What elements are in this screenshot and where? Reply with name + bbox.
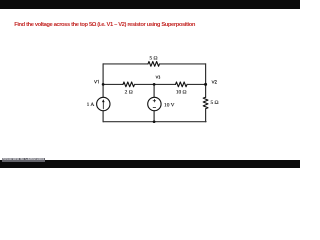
watermark strip	[2, 158, 45, 162]
voltage source V1 10V circle	[148, 97, 161, 110]
wire left column lower	[102, 111, 104, 122]
current source arrow	[102, 101, 104, 109]
svg-text:1 A: 1 A	[87, 102, 95, 108]
wire middle column upper	[153, 84, 155, 97]
wire top rail right segment	[160, 63, 206, 65]
current source I1 1A circle	[97, 97, 110, 110]
node v2 dot	[204, 83, 207, 86]
wire middle rail v1-2ohm	[103, 83, 123, 85]
wire middle rail 10ohm-v2	[187, 83, 206, 85]
svg-text:10 Ω: 10 Ω	[176, 89, 187, 95]
svg-text:10 V: 10 V	[164, 103, 175, 109]
bottom black letterbox bar	[0, 160, 300, 168]
wire middle rail 2ohm-v3	[135, 83, 155, 85]
wire left column upper	[102, 64, 104, 97]
wire right column lower	[205, 109, 207, 122]
svg-text:2 Ω: 2 Ω	[125, 89, 133, 95]
node v1 dot	[102, 83, 105, 86]
resistor R1 2ohm zigzag	[123, 82, 135, 87]
node v3 label	[156, 76, 158, 79]
wire right column upper	[205, 64, 207, 97]
svg-text:5 Ω: 5 Ω	[149, 55, 157, 61]
node v1 label	[94, 80, 96, 83]
resistor R2 10ohm zigzag	[176, 82, 188, 87]
resistor R-top 5ohm zigzag	[148, 62, 160, 67]
voltage source minus sign	[153, 107, 156, 109]
wire middle rail v3-10ohm	[154, 83, 175, 85]
wire bottom rail	[103, 121, 206, 123]
wire middle column lower	[153, 111, 155, 122]
bottom junction dot	[153, 120, 156, 123]
title text	[14, 22, 195, 28]
node v3 dot	[153, 83, 156, 86]
svg-text:5 Ω: 5 Ω	[211, 100, 219, 106]
top black letterbox bar	[0, 0, 300, 9]
node v2 label	[212, 81, 214, 84]
wire top rail left segment	[103, 63, 148, 65]
voltage source plus sign	[153, 99, 156, 102]
resistor R3 5ohm vertical zigzag	[203, 97, 208, 108]
